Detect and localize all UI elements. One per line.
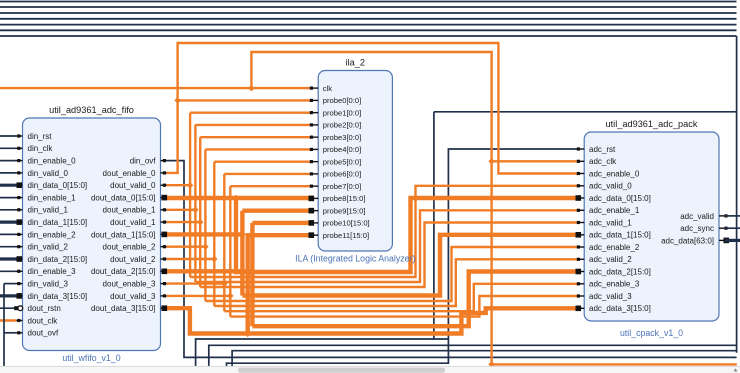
wire net dout_enable_1 fifo leg [167, 209, 196, 211]
wire net dout_valid_3 fifo leg [167, 295, 231, 297]
pin pack left adc_valid_1 [577, 218, 632, 227]
wire net dout_valid_0 staircase to pack pin [190, 186, 578, 277]
pin fifo right dout_data_2[15:0] [91, 267, 167, 276]
wire input din_valid_1 [0, 209, 17, 211]
wire net dout_data_2 fifo leg [167, 269, 253, 273]
wire net dout_data_1 probe leg [242, 208, 312, 212]
svg-text:probe10[15:0]: probe10[15:0] [323, 219, 370, 228]
svg-text:util_wfifo_v1_0: util_wfifo_v1_0 [62, 353, 120, 363]
wire navy vertical x=448.4 to adc_rst [227, 149, 579, 367]
pin fifo left din_data_3[15:0] [17, 292, 88, 301]
wire top horizontal net 4 [0, 18, 737, 20]
junction clk at ILA branch [248, 85, 255, 92]
wire net din_ovf (fifo right pin to bottom-right) [167, 161, 737, 358]
svg-text:adc_enable_3: adc_enable_3 [589, 280, 640, 289]
wire net dout_enable_2 staircase to pack pin [205, 247, 578, 301]
svg-text:din_enable_1: din_enable_1 [28, 194, 77, 203]
pin ila probe2[0:0] [310, 121, 361, 130]
svg-text:adc_data[63:0]: adc_data[63:0] [661, 236, 714, 245]
wire net dout_data_1 staircase to pack pin [242, 235, 578, 296]
svg-text:din_valid_2: din_valid_2 [28, 243, 69, 252]
pin fifo left din_enable_2 [17, 230, 77, 239]
wire net dout_data_2 probe leg [252, 221, 312, 225]
pin ila probe11[15:0] [309, 231, 370, 240]
pin fifo left din_clk [17, 144, 54, 153]
svg-text:din_data_2[15:0]: din_data_2[15:0] [28, 255, 88, 264]
svg-text:adc_valid_0: adc_valid_0 [589, 182, 632, 191]
block util_ad9361_adc_fifo [23, 105, 161, 363]
pin ila probe8[15:0] [309, 194, 366, 203]
svg-text:probe5[0:0]: probe5[0:0] [323, 157, 361, 166]
pin pack right adc_data[63:0] [661, 236, 729, 245]
pin fifo right dout_data_3[15:0] [91, 304, 167, 313]
wire net dout_valid_1 trunk vertical [199, 137, 201, 287]
wire input dout_rstn [0, 307, 17, 309]
svg-text:din_data_3[15:0]: din_data_3[15:0] [28, 292, 88, 301]
pin fifo left din_data_1[15:0] [17, 218, 88, 227]
svg-text:adc_enable_0: adc_enable_0 [589, 169, 640, 178]
pin fifo left din_valid_1 [17, 206, 69, 215]
svg-text:ila_2: ila_2 [346, 58, 365, 68]
svg-text:din_valid_0: din_valid_0 [28, 169, 69, 178]
pin pack left adc_data_2[15:0] [576, 267, 651, 276]
wire net dout_valid_1 staircase to pack pin [200, 223, 578, 288]
svg-text:din_valid_1: din_valid_1 [28, 206, 69, 215]
wire net dout_enable_0 branch to probe0 [178, 99, 313, 101]
pin pack left adc_enable_2 [577, 243, 640, 252]
wire input din_valid_2 [0, 246, 17, 248]
wire net dout_enable_1 trunk vertical [194, 125, 196, 282]
wire input din_enable_2 [0, 233, 17, 235]
wire net dout_valid_3 trunk vertical [229, 186, 231, 316]
pin pack left adc_data_3[15:0] [576, 304, 651, 313]
svg-text:din_enable_2: din_enable_2 [28, 230, 77, 239]
wire net dout_enable_0 fifo leg and over-the-top route [167, 43, 579, 174]
svg-text:adc_valid_2: adc_valid_2 [589, 255, 632, 264]
svg-text:util_ad9361_adc_fifo: util_ad9361_adc_fifo [49, 105, 134, 115]
svg-text:adc_enable_2: adc_enable_2 [589, 243, 640, 252]
wire net clk branch to adc_clk pin [492, 160, 579, 162]
pin fifo right dout_valid_2 [110, 255, 166, 264]
wire input bus din_data_3[15:0] [0, 294, 17, 297]
svg-text:dout_valid_1: dout_valid_1 [110, 218, 156, 227]
pin fifo right dout_valid_0 [110, 181, 166, 190]
pin fifo left din_enable_0 [17, 157, 77, 166]
pin pack left adc_data_1[15:0] [576, 231, 651, 240]
wire input bus din_data_0[15:0] [0, 184, 17, 187]
pin fifo left din_valid_0 [17, 169, 69, 178]
svg-text:adc_data_0[15:0]: adc_data_0[15:0] [589, 194, 651, 203]
svg-text:adc_data_3[15:0]: adc_data_3[15:0] [589, 304, 651, 313]
pin fifo right dout_enable_0 [103, 169, 167, 178]
pin fifo left din_data_0[15:0] [17, 181, 88, 190]
wire input din_enable_0 [0, 160, 17, 162]
pin pack left adc_enable_0 [577, 169, 640, 178]
junction dout_valid_3 at fifo leg [227, 293, 234, 300]
pin fifo right dout_enable_1 [103, 206, 167, 215]
pin fifo left dout_clk [17, 316, 59, 325]
svg-text:probe1[0:0]: probe1[0:0] [323, 108, 361, 117]
pin ila probe3[0:0] [310, 133, 361, 142]
wire net dout_data_2 staircase to pack pin [252, 272, 578, 327]
wire net dout_enable_3 staircase to pack pin [224, 284, 578, 311]
junction clk at bottom corner [488, 361, 495, 368]
wire net dout_valid_2 fifo leg [167, 258, 215, 260]
wire net dout_valid_2 staircase to pack pin [214, 259, 578, 306]
wire net dout_data_1 fifo leg [167, 232, 243, 236]
pin pack left adc_rst [577, 145, 616, 154]
pin ila probe4[0:0] [310, 145, 361, 154]
wire navy bottom net B (bottom edge, along y=345.3 to right edge) [209, 345, 737, 366]
wire net dout_enable_1 staircase to pack pin [195, 210, 578, 282]
svg-text:dout_valid_0: dout_valid_0 [110, 181, 156, 190]
pin fifo left din_enable_1 [17, 194, 77, 203]
svg-text:adc_clk: adc_clk [589, 157, 617, 166]
wire net dout_valid_0 probe leg [190, 111, 312, 113]
pin fifo right dout_valid_1 [110, 218, 166, 227]
svg-text:adc_valid_3: adc_valid_3 [589, 292, 632, 301]
pin ila probe10[15:0] [309, 219, 370, 228]
wire net dout_enable_3 trunk vertical [223, 174, 225, 311]
pin pack left adc_enable_3 [577, 280, 640, 289]
svg-text:probe4[0:0]: probe4[0:0] [323, 145, 361, 154]
svg-text:dout_clk: dout_clk [28, 316, 59, 325]
svg-text:adc_data_2[15:0]: adc_data_2[15:0] [589, 267, 651, 276]
wire net dout_valid_1 fifo leg [167, 221, 201, 223]
wire net dout_enable_1 probe leg [195, 124, 312, 126]
wire net dout_valid_3 probe leg [230, 185, 312, 187]
wire input din_clk [0, 147, 17, 149]
svg-text:ILA (Integrated Logic Analyzer: ILA (Integrated Logic Analyzer) [295, 254, 415, 264]
wire net dout_valid_2 trunk vertical [213, 162, 215, 306]
pin fifo left dout_rstn [14, 304, 61, 313]
wire output adc_valid to right edge [725, 215, 740, 217]
wire top horizontal net 1 [0, 1, 737, 3]
wire top horizontal net 5 [0, 24, 737, 26]
wire net clk branch up and over to adc_clk and bottom [251, 52, 736, 364]
pin fifo right dout_data_0[15:0] [91, 194, 167, 203]
svg-text:dout_data_3[15:0]: dout_data_3[15:0] [91, 304, 156, 313]
pin pack right adc_valid [680, 212, 727, 221]
svg-text:adc_data_1[15:0]: adc_data_1[15:0] [589, 231, 651, 240]
pin fifo right dout_data_1[15:0] [91, 230, 167, 239]
pin pack right adc_sync [680, 224, 727, 233]
svg-text:din_enable_0: din_enable_0 [28, 157, 77, 166]
svg-text:probe0[0:0]: probe0[0:0] [323, 96, 361, 105]
svg-text:probe3[0:0]: probe3[0:0] [323, 133, 361, 142]
wire top horizontal net 3 [0, 12, 737, 14]
svg-text:util_cpack_v1_0: util_cpack_v1_0 [620, 328, 683, 338]
pin pack left adc_clk [577, 157, 617, 166]
svg-text:dout_data_2[15:0]: dout_data_2[15:0] [91, 267, 156, 276]
svg-text:din_rst: din_rst [28, 132, 53, 141]
wire top horizontal net 2 [0, 6, 737, 8]
pin fifo right dout_enable_3 [103, 280, 167, 289]
svg-text:adc_enable_1: adc_enable_1 [589, 206, 640, 215]
wire net dout_valid_0 trunk vertical [189, 113, 191, 277]
svg-text:adc_sync: adc_sync [680, 224, 714, 233]
svg-text:dout_enable_0: dout_enable_0 [103, 169, 156, 178]
junction clk at adc_clk branch [488, 158, 495, 165]
pin pack left adc_valid_0 [577, 182, 632, 191]
svg-text:din_valid_3: din_valid_3 [28, 280, 69, 289]
pin ila probe6[0:0] [310, 170, 361, 179]
svg-text:probe2[0:0]: probe2[0:0] [323, 121, 361, 130]
pin fifo left din_rst [17, 132, 53, 141]
svg-text:probe7[0:0]: probe7[0:0] [323, 182, 361, 191]
svg-text:dout_data_0[15:0]: dout_data_0[15:0] [91, 194, 156, 203]
canvas bottom edge and scrollbar [0, 366, 740, 373]
block ila_2 [295, 58, 415, 264]
pin fifo left din_data_2[15:0] [17, 255, 88, 264]
wire navy bottom net C (bottom edge, along y=350.7 to right edge) [232, 351, 736, 367]
wire net dout_data_1 trunk vertical [240, 211, 244, 296]
wire input bus din_data_1[15:0] [0, 221, 17, 224]
wire top horizontal net 6 [0, 29, 737, 31]
junction dout_enable_0 at probe0 branch [174, 97, 181, 104]
svg-text:dout_rstn: dout_rstn [28, 304, 61, 313]
wire net dout_enable_3 probe leg [224, 173, 312, 175]
svg-text:adc_valid: adc_valid [680, 212, 714, 221]
wire input bus din_data_2[15:0] [0, 257, 17, 260]
svg-text:din_data_1[15:0]: din_data_1[15:0] [28, 218, 88, 227]
pin ila probe0[0:0] [310, 96, 361, 105]
wire input din_valid_3 from left-edge vertical [4, 283, 17, 285]
junction dout_valid_0 at fifo leg [187, 182, 194, 189]
pin pack left adc_valid_2 [577, 255, 632, 264]
svg-text:dout_ovf: dout_ovf [28, 329, 59, 338]
wire net dout_valid_1 probe leg [200, 136, 312, 138]
wire net dout_valid_2 probe leg [214, 160, 312, 162]
junction dout_data_2 at fifo leg [249, 268, 256, 275]
junction dout_enable_2 at fifo leg [202, 243, 209, 250]
wire input din_rst [0, 135, 17, 137]
wire top horizontal net 7 [0, 35, 737, 37]
wire net dout_enable_3 fifo leg [167, 282, 225, 284]
pin ila clk [310, 84, 332, 93]
junction dout_valid_2 at fifo leg [211, 256, 218, 263]
junction dout_data_0 trunk [233, 195, 240, 202]
junction dout_data_1 at fifo leg [239, 231, 246, 238]
svg-text:dout_data_1[15:0]: dout_data_1[15:0] [91, 230, 156, 239]
svg-text:probe9[15:0]: probe9[15:0] [323, 206, 366, 215]
pin ila probe9[15:0] [309, 206, 366, 215]
svg-text:adc_rst: adc_rst [589, 145, 616, 154]
pin pack left adc_valid_3 [577, 292, 632, 301]
pin fifo left din_valid_3 [17, 280, 69, 289]
svg-text:din_ovf: din_ovf [130, 157, 157, 166]
svg-text:dout_enable_1: dout_enable_1 [103, 206, 156, 215]
svg-text:dout_valid_2: dout_valid_2 [110, 255, 156, 264]
svg-text:din_clk: din_clk [28, 144, 54, 153]
wire input dout_ovf from left-edge vertical [4, 332, 17, 334]
pin fifo left dout_ovf [17, 329, 59, 338]
wire net dout_data_3 branch to probe11 [248, 235, 313, 333]
svg-text:din_enable_3: din_enable_3 [28, 267, 77, 276]
wire net dout_data_2 trunk vertical [250, 223, 254, 326]
pin ila probe1[0:0] [310, 108, 361, 117]
wire input din_enable_1 [0, 197, 17, 199]
wire net dout_enable_2 fifo leg [167, 245, 206, 247]
pin pack left adc_enable_1 [577, 206, 640, 215]
junction dout_data_3 probe branch [244, 330, 251, 337]
junction dout_enable_3 at fifo leg [221, 280, 228, 287]
wire navy bottom net A (bottom edge, along y=339, up at x=434 to y=112, off right) [196, 339, 449, 367]
wire input din_enable_3 [0, 270, 17, 272]
svg-text:probe8[15:0]: probe8[15:0] [323, 194, 366, 203]
pin fifo right dout_valid_3 [110, 292, 166, 301]
svg-text:adc_valid_1: adc_valid_1 [589, 218, 632, 227]
wire vertical at left edge for din_valid_3 / dout_ovf [3, 284, 5, 367]
wire net dout_data_0 trunk down and to adc pin [236, 198, 579, 272]
svg-text:util_ad9361_adc_pack: util_ad9361_adc_pack [606, 119, 698, 129]
wire right-edge vertical (top net 7 wrap-down) [736, 36, 738, 353]
svg-text:dout_enable_3: dout_enable_3 [103, 280, 156, 289]
wire net dout_valid_0 fifo leg [167, 184, 191, 186]
pin fifo right din_ovf [130, 157, 167, 166]
svg-text:dout_enable_2: dout_enable_2 [103, 243, 156, 252]
wire net dout_enable_2 trunk vertical [204, 149, 206, 301]
svg-text:dout_valid_3: dout_valid_3 [110, 292, 156, 301]
svg-text:clk: clk [323, 84, 332, 93]
pin pack left adc_data_0[15:0] [576, 194, 651, 203]
wire net dout_enable_2 probe leg [205, 148, 312, 150]
wire net clk horizontal from left edge to ILA clk [0, 87, 313, 89]
wire net dout_data_0 straight to probe8 [167, 196, 313, 200]
wire net dout_valid_3 staircase to pack pin [230, 296, 578, 317]
wire output adc_data[63:0] to right edge [725, 239, 740, 242]
pin ila probe5[0:0] [310, 157, 361, 166]
svg-text:probe6[0:0]: probe6[0:0] [323, 170, 361, 179]
pin fifo left din_enable_3 [17, 267, 77, 276]
pin fifo right dout_enable_2 [103, 243, 167, 252]
wire output adc_sync to right edge [725, 227, 740, 229]
junction dout_valid_1 at fifo leg [197, 219, 204, 226]
wire net dout_data_3 fifo leg and bus along bottom to adc_data_3 [167, 308, 579, 333]
svg-text:probe11[15:0]: probe11[15:0] [323, 231, 369, 240]
wire input din_valid_0 [0, 172, 17, 174]
junction dout_enable_1 at fifo leg [192, 207, 199, 214]
pin ila probe7[0:0] [310, 182, 361, 191]
wire net clk stub dout_clk (fifo left) [0, 319, 17, 321]
pin fifo left din_valid_2 [17, 243, 69, 252]
svg-text:din_data_0[15:0]: din_data_0[15:0] [28, 181, 88, 190]
block util_ad9361_adc_pack [584, 119, 719, 338]
